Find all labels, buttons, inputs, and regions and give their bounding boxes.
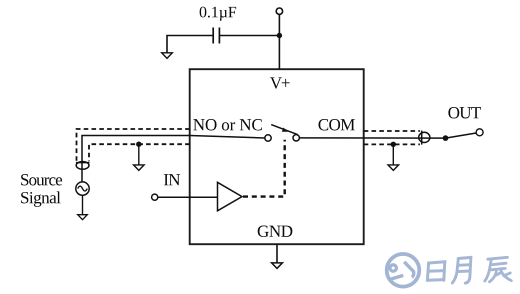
ground under GND pin xyxy=(276,244,278,263)
ground under source xyxy=(78,215,88,220)
buffer amplifier A1 xyxy=(218,182,243,211)
logo text yue (moon) xyxy=(452,257,471,283)
wire V+ vertical xyxy=(278,15,280,70)
coax shield inner dashed (left) xyxy=(89,144,190,161)
label text Signal xyxy=(21,191,60,206)
wire capacitor right xyxy=(219,35,279,37)
logo icon circle xyxy=(387,254,420,287)
wire below source xyxy=(82,195,84,214)
wire capacitor left xyxy=(167,36,213,53)
label text COM xyxy=(318,119,354,130)
terminal IN xyxy=(152,194,158,200)
capacitor C1 plates xyxy=(212,28,214,44)
switch S1 contact NO/NC xyxy=(265,135,271,141)
label text 0.1µF xyxy=(200,7,237,21)
label text NO or NC xyxy=(193,119,262,130)
coax shield bottom dashed (right) xyxy=(364,143,420,145)
ground under capacitor xyxy=(162,53,173,59)
source V1 sine generator xyxy=(76,182,89,195)
label text GND xyxy=(258,226,293,237)
switch S1 contact COM xyxy=(293,135,299,141)
dashed control line buffer to switch xyxy=(243,140,285,197)
switch arm xyxy=(271,125,297,135)
coax shield top dashed (right) xyxy=(364,130,420,132)
op-amp/switch IC body U1 xyxy=(190,69,364,244)
label text Source xyxy=(21,174,62,185)
logo text chen (star) xyxy=(485,257,512,282)
label text V+ xyxy=(270,77,290,88)
junction dot on OUT wire xyxy=(443,135,449,141)
coax connector end (right) xyxy=(421,131,423,145)
terminal V+ supply xyxy=(276,8,282,14)
ground on inner shield xyxy=(138,144,140,165)
coax shield outer dashed (left) xyxy=(77,129,190,161)
switch arm arrowhead xyxy=(282,128,288,132)
wire coax center conductor (left) xyxy=(82,136,265,182)
junction dot on bottom shield xyxy=(391,142,396,147)
logo text ri (sun) xyxy=(427,262,444,281)
label text IN xyxy=(164,174,180,185)
terminal OUT xyxy=(476,129,483,136)
wire IN xyxy=(158,196,218,198)
junction dot on V+ wire xyxy=(277,33,282,38)
coax connector end (left) xyxy=(76,162,90,164)
junction dot on inner shield xyxy=(136,142,141,147)
label text OUT xyxy=(448,107,481,118)
ground on right shield xyxy=(392,144,394,165)
wire COM to OUT xyxy=(299,137,445,139)
